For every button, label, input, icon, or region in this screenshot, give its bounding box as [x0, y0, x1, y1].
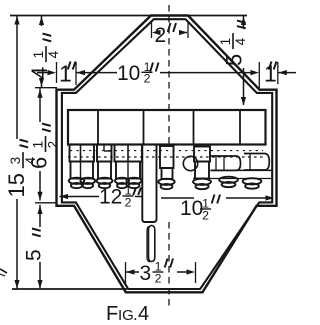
svg-text:5: 5 [222, 54, 247, 66]
svg-text:2: 2 [45, 141, 60, 149]
svg-text:4: 4 [233, 37, 248, 45]
svg-text:12: 12 [99, 186, 122, 209]
svg-text:F: F [106, 303, 118, 325]
svg-text:15: 15 [4, 173, 29, 197]
svg-text:1: 1 [31, 51, 46, 59]
svg-text:4: 4 [138, 303, 149, 325]
svg-text:2: 2 [125, 195, 132, 209]
svg-text:2: 2 [144, 72, 151, 86]
svg-text:2: 2 [155, 271, 162, 285]
svg-text:3: 3 [8, 157, 23, 165]
svg-text:10: 10 [117, 62, 140, 85]
svg-text:IG: IG [118, 307, 134, 324]
svg-text:2: 2 [155, 24, 167, 47]
svg-text:10: 10 [180, 197, 203, 220]
svg-text:1: 1 [218, 38, 233, 46]
svg-text:1: 1 [31, 141, 46, 149]
svg-text:6: 6 [27, 157, 52, 169]
svg-text:5: 5 [23, 249, 46, 261]
svg-text:4: 4 [46, 50, 61, 58]
svg-text:2: 2 [202, 208, 209, 222]
svg-text:3: 3 [140, 262, 152, 285]
